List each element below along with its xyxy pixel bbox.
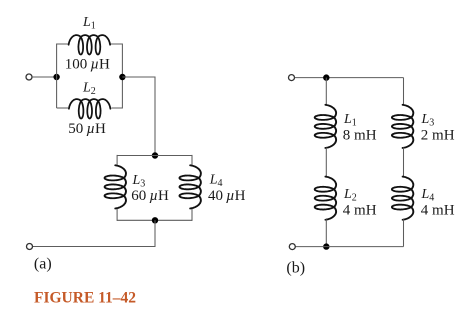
node E junction dot (top left branch) bbox=[323, 74, 329, 80]
svg-text:4 mH: 4 mH bbox=[343, 203, 377, 219]
terminal T4 (open circle, bottom input of circuit b) bbox=[289, 244, 295, 250]
inductor L2 (4 mH) bbox=[315, 177, 336, 220]
wire from node B to node C (right then down) bbox=[122, 77, 155, 156]
wire: bottom of circuit b bbox=[296, 246, 404, 248]
svg-text:L2: L2 bbox=[82, 80, 96, 97]
svg-text:L4: L4 bbox=[421, 187, 435, 204]
wire: right branch lower segment bbox=[403, 219, 405, 246]
inductor L1 (100 uH) top branch bbox=[69, 35, 111, 54]
wire: left side of parallel box L1/L2 bbox=[57, 44, 69, 108]
wire: top edge of L3/L4 box bbox=[117, 155, 192, 157]
inductor L1 (8 mH) bbox=[315, 105, 336, 148]
svg-text:2 mH: 2 mH bbox=[421, 128, 455, 144]
wire from T3 across top of circuit b bbox=[295, 77, 404, 79]
wire from T1 to node A bbox=[32, 76, 56, 78]
svg-text:4 mH: 4 mH bbox=[421, 203, 455, 219]
terminal T2 (open circle, left output of circuit a) bbox=[27, 244, 33, 250]
svg-text:100 µH: 100 µH bbox=[65, 56, 110, 72]
inductor L3 (2 mH) bbox=[392, 105, 413, 148]
svg-text:L4: L4 bbox=[209, 173, 223, 190]
inductor L3 (60 uH) left branch of box bbox=[105, 165, 126, 208]
node F junction dot (bottom left branch) bbox=[323, 243, 329, 249]
svg-text:L3: L3 bbox=[421, 112, 435, 129]
svg-text:L1: L1 bbox=[82, 15, 96, 32]
wire: right side of L3/L4 box bbox=[191, 155, 193, 166]
svg-text:L1: L1 bbox=[343, 112, 357, 129]
node C junction dot (top of L3/L4 box) bbox=[152, 152, 158, 158]
svg-text:(b): (b) bbox=[286, 260, 305, 277]
wire: bottom-left segment to L2 bbox=[57, 107, 68, 109]
inductor L4 (4 mH) bbox=[392, 177, 413, 220]
wire from node D down-left to terminal T2 bbox=[33, 220, 155, 246]
wire: left branch lower segment bbox=[325, 219, 327, 246]
svg-text:L2: L2 bbox=[343, 187, 357, 204]
inductor L2 (50 uH) bottom branch bbox=[69, 99, 111, 118]
wire: left branch upper segment bbox=[325, 78, 327, 105]
svg-text:50 µH: 50 µH bbox=[68, 121, 106, 137]
svg-text:(a): (a) bbox=[34, 256, 52, 273]
wire: right branch upper segment bbox=[403, 78, 405, 105]
svg-text:60 µH: 60 µH bbox=[131, 188, 169, 204]
node A junction dot bbox=[53, 74, 59, 80]
wire: right side of parallel box L1/L2 bbox=[110, 44, 122, 108]
wire: left side of L3/L4 box bbox=[116, 155, 118, 166]
wire: right branch middle segment bbox=[403, 148, 405, 177]
wire: left branch middle segment bbox=[325, 148, 327, 177]
inductor L4 (40 uH) right branch of box bbox=[180, 165, 201, 208]
terminal T1 (open circle, left input of circuit a) bbox=[26, 74, 32, 80]
node B junction dot bbox=[119, 74, 125, 80]
node D junction dot (bottom of L3/L4 box) bbox=[152, 217, 158, 223]
wire: bottom edge of L3/L4 box bbox=[117, 219, 192, 221]
svg-text:8 mH: 8 mH bbox=[343, 128, 377, 144]
svg-text:40 µH: 40 µH bbox=[208, 188, 246, 204]
terminal T3 (open circle, top input of circuit b) bbox=[289, 75, 295, 81]
svg-text:FIGURE 11–42: FIGURE 11–42 bbox=[34, 290, 136, 307]
